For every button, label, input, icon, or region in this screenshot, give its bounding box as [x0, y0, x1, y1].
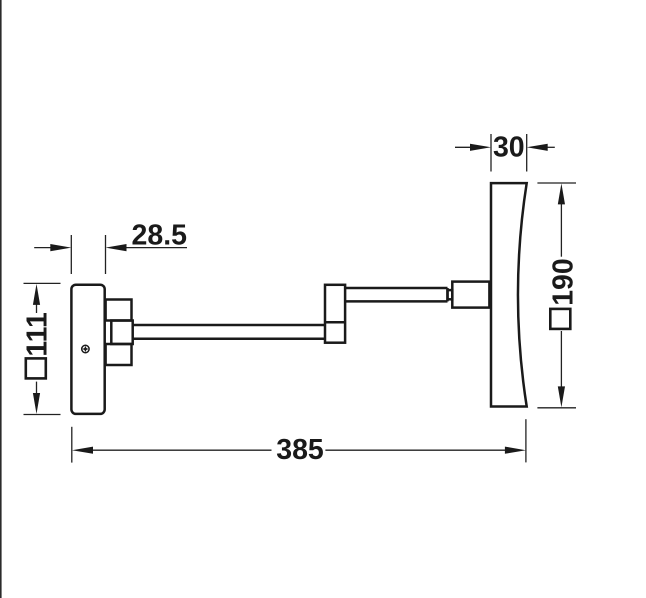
left page border line: [0, 0, 2, 598]
dim 111 arrow down: [33, 393, 40, 414]
svg-text:385: 385: [276, 434, 324, 466]
screw on wall plate: [82, 345, 89, 352]
wall plate: [71, 285, 104, 414]
mirror body: [491, 183, 527, 406]
upper arm end cap: [446, 288, 449, 301]
upper arm bottom line: [345, 300, 447, 303]
dim 28.5 extension line left: [70, 235, 72, 274]
bracket middle hinge piece: [111, 321, 132, 345]
dim 30 line left: [455, 146, 472, 148]
dim 30 extension line left: [490, 134, 492, 172]
dim 111 shaft bottom: [36, 382, 38, 398]
dim 190 shaft bottom: [560, 331, 562, 390]
lower arm bottom line: [133, 338, 325, 341]
dim 28.5 arrow right-pointing: [50, 244, 71, 251]
dim 190 arrow down: [558, 386, 565, 407]
dim 385 arrow left-pointing: [72, 447, 93, 454]
svg-text:111: 111: [22, 312, 54, 357]
dim 385 arrow right-pointing: [505, 447, 526, 454]
mirror mount block: [452, 282, 489, 308]
dim 28.5 line right: [124, 247, 187, 249]
dim 30 extension line right: [526, 134, 528, 172]
dim 190 shaft top: [560, 200, 562, 257]
dim 190 extension line top: [537, 182, 576, 184]
dim 385 extension line right: [525, 419, 527, 462]
dim 30 arrow right-pointing: [470, 144, 491, 151]
svg-text:30: 30: [493, 131, 525, 163]
bracket top ear: [106, 300, 132, 321]
dim 28.5 line left: [34, 247, 52, 249]
elbow joint body: [325, 285, 345, 343]
dim 28.5 extension line right: [105, 235, 107, 274]
elbow joint divider: [325, 321, 345, 324]
svg-text:190: 190: [547, 258, 579, 306]
dim 111 extension line bottom: [24, 414, 61, 416]
dim 111 shaft top: [36, 300, 38, 313]
dim 385 line right: [325, 449, 508, 451]
bracket bottom ear: [106, 344, 132, 365]
dim 190 arrow up: [558, 183, 565, 204]
upper arm top line: [345, 287, 447, 290]
dim 190 extension line bottom: [537, 407, 576, 409]
dim 30 arrow left-pointing: [527, 144, 548, 151]
dim 385 extension line left: [71, 427, 73, 463]
mirror swivel neck: [448, 290, 453, 299]
dim 190 square symbol: [550, 309, 570, 329]
dim 28.5 arrow left-pointing: [106, 244, 127, 251]
dim 111 extension line top: [24, 282, 61, 284]
dim 111 square symbol: [26, 358, 46, 378]
lower arm top line: [133, 324, 325, 327]
dim 30 line right: [545, 146, 555, 148]
dim 111 arrow up: [33, 284, 40, 305]
dim 385 line left: [90, 449, 272, 451]
svg-text:28.5: 28.5: [132, 220, 188, 252]
